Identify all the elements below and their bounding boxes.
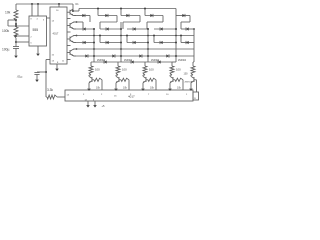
svg-text:3.3k: 3.3k <box>47 88 53 92</box>
wire grid row8 rail <box>74 55 194 57</box>
wire U2 out stub <box>67 31 71 33</box>
wire emitter Q1 <box>73 14 76 16</box>
transistor Qc4 <box>170 76 173 82</box>
node bus x194 r4 <box>193 28 195 30</box>
label pin16 <box>56 10 59 12</box>
pin 4 stub <box>37 4 39 16</box>
label Rb2 10k <box>123 87 128 90</box>
node bus r8 x121 <box>120 55 122 57</box>
node bus r5 x94 <box>93 35 95 37</box>
wire jog r5r6 <box>153 36 155 43</box>
label U3 out 9 <box>130 94 132 96</box>
node pin4 rail <box>37 3 39 5</box>
node loop bottom <box>15 25 17 27</box>
label C1 100u <box>2 48 10 52</box>
wire U2 out stub <box>67 18 71 20</box>
wire base Qc5 <box>194 80 197 92</box>
wire row6 brick <box>181 42 194 44</box>
label U1 555 <box>33 28 39 32</box>
label Rb1 10k <box>96 87 101 90</box>
node pin2 node <box>15 35 17 37</box>
ic U2 4017 box <box>50 7 67 64</box>
label pin14 <box>52 21 55 23</box>
label Rc2 <box>122 68 127 72</box>
node jog r1 <box>120 8 122 10</box>
node U2 Vdd rail <box>58 3 60 5</box>
transistor Q2 <box>70 22 73 28</box>
label Rb3 10k <box>150 87 155 90</box>
wire emitter Q4 <box>73 55 76 57</box>
led D row8 <box>139 54 142 57</box>
svg-text:2N3904: 2N3904 <box>151 60 160 62</box>
node bus r8 x94 <box>93 55 95 57</box>
wire bus x176 <box>175 9 177 63</box>
capacitor C2 <box>34 73 39 75</box>
svg-text:100: 100 <box>95 68 100 72</box>
resistor R3 3k3 <box>47 95 57 99</box>
label pin11 <box>62 61 65 63</box>
wire row3 brick <box>100 21 117 23</box>
wire base Qc1 <box>92 78 102 90</box>
node jog r5 <box>126 35 128 37</box>
transistor Q1 <box>70 9 73 15</box>
label U3 4017 <box>128 95 135 99</box>
wire Rc4 bottom <box>170 75 172 76</box>
node carry C2 <box>45 71 47 73</box>
wire base Qc2 <box>119 78 129 90</box>
wire base Q3 <box>67 38 70 40</box>
node pin8 rail <box>31 3 33 5</box>
wire row2 brick <box>98 15 117 17</box>
node jog r1 <box>144 8 146 10</box>
wire jog r3r4 <box>122 22 124 29</box>
label pin8b <box>57 62 59 64</box>
led D row4 <box>133 27 136 30</box>
ground Qc1 <box>87 83 91 91</box>
led D row6 <box>83 41 86 44</box>
label supply <box>102 104 106 108</box>
wire jog r3r4 <box>82 22 84 29</box>
label D1 <box>76 3 80 6</box>
wire grid row1 rail <box>79 8 176 10</box>
led D row6 <box>106 41 109 44</box>
wire base Qc3 <box>146 78 156 90</box>
label U3 out 1 <box>186 94 188 96</box>
wire base Q1 <box>67 11 70 13</box>
ground C2 <box>35 75 39 83</box>
resistor Rc1 100R <box>89 66 93 75</box>
pin16 stub <box>58 4 60 7</box>
wire pin2 stub <box>16 35 29 37</box>
wire U2 out stub <box>67 45 71 47</box>
label U3 out 7 <box>148 94 150 96</box>
transistor Qc1 <box>89 76 92 82</box>
wire jog r2r3 <box>89 16 91 23</box>
label Rc1 <box>95 68 100 72</box>
wire jog r2r3 <box>139 16 141 23</box>
wire Rc3 bottom <box>143 75 145 76</box>
led Dc2 <box>131 60 134 63</box>
ground Qc2 <box>114 83 118 91</box>
wire row6 brick <box>127 42 148 44</box>
wire bus x94 <box>93 29 95 62</box>
label Rc3 <box>149 68 154 72</box>
wire grid row7 rail <box>74 48 194 50</box>
label U3 pin14 <box>67 95 70 97</box>
led Dc3 <box>158 60 161 63</box>
node jog r5 <box>180 35 182 37</box>
node bus x176 <box>175 28 177 30</box>
node Q3 coll <box>76 35 78 37</box>
label U3 out 2 <box>101 94 103 96</box>
pin 8 stub <box>31 4 33 16</box>
wire row4 brick <box>181 28 194 30</box>
svg-text:555: 555 <box>33 28 39 32</box>
node bus r5 x121 <box>120 35 122 37</box>
node bus r7 x94 <box>93 48 95 50</box>
wire top +V rail <box>16 3 73 5</box>
label pin13 <box>52 61 55 63</box>
node bus r8 x148 <box>147 55 149 57</box>
wire jog r3r4 <box>146 22 148 29</box>
label pin6n <box>31 43 33 45</box>
node rail drop <box>72 10 74 12</box>
led D row4 <box>83 27 86 30</box>
wire C2 stub <box>37 71 46 73</box>
wire rail drop right <box>72 4 74 11</box>
wire carry to clock b <box>57 96 65 98</box>
node bus x176 <box>175 35 177 37</box>
svg-text:.01µ: .01µ <box>17 75 23 79</box>
wire Rc5 bottom <box>191 75 193 76</box>
wire row2 brick <box>74 15 90 17</box>
ground Qc4 <box>168 83 172 91</box>
wire col2 seg <box>118 61 145 63</box>
ground U2 <box>55 64 59 71</box>
node bus r6 x94 <box>93 42 95 44</box>
node bus x176 <box>175 55 177 57</box>
label Qc5 <box>185 82 193 84</box>
resistor Rc4 100R <box>170 66 174 75</box>
transistor Q4 <box>70 49 73 55</box>
wire row4 brick <box>154 28 176 30</box>
node jog r1 <box>97 8 99 10</box>
wire row3 brick <box>123 21 140 23</box>
pin 3 stub out <box>47 17 51 19</box>
led D row6 <box>133 41 136 44</box>
svg-text:100: 100 <box>176 68 181 72</box>
wire col1 to res <box>90 62 92 66</box>
wire jog r5r6 <box>126 36 128 43</box>
label Rc4 <box>176 68 181 72</box>
svg-text:2N3904: 2N3904 <box>178 60 187 62</box>
label pin3 <box>43 20 45 22</box>
node bus x176 <box>175 42 177 44</box>
node bus r4 x121 <box>120 28 122 30</box>
svg-text:4017: 4017 <box>53 32 59 36</box>
wire col3 to res <box>144 62 146 66</box>
label R2 100k <box>2 29 10 33</box>
resistor Rc3 100R <box>143 66 147 75</box>
node bus r6 x121 <box>120 42 122 44</box>
wire pin7 loop bottom <box>8 25 29 27</box>
label Qc1 <box>97 60 106 62</box>
svg-text:100: 100 <box>149 68 154 72</box>
node bus r4 x148 <box>147 28 149 30</box>
wire R2-C1 <box>15 38 17 47</box>
wire pin7 loop left <box>7 20 9 26</box>
transistor Qc3 <box>143 76 146 82</box>
led D row8 <box>112 54 115 57</box>
wire jog r3r4 <box>180 22 182 29</box>
wire bus x148 <box>147 29 149 62</box>
label U3 pin13 <box>85 99 88 101</box>
resistor R2 <box>14 27 18 38</box>
wire row3 brick <box>74 21 83 23</box>
wire Rc1 bottom <box>89 75 91 76</box>
label Rb4 10k <box>177 87 182 90</box>
svg-text:2N3904: 2N3904 <box>124 60 133 62</box>
led D row2 <box>182 14 185 17</box>
wire jog r2r3 <box>189 16 191 23</box>
wire bus x121 <box>120 22 122 62</box>
led D row4 <box>160 27 163 30</box>
label U2 4017 <box>53 32 59 36</box>
node jog r5 <box>153 35 155 37</box>
wire jog r5r6 <box>180 36 182 43</box>
led D row2 <box>150 14 153 17</box>
svg-text:100: 100 <box>184 73 189 76</box>
ground C1 <box>14 49 18 59</box>
wire jog r2r3 <box>162 16 164 23</box>
label U3 pin16 <box>114 96 117 98</box>
wire Q1 coll node <box>73 10 79 12</box>
wire col5 to res <box>192 62 194 66</box>
label pin4 <box>37 19 39 21</box>
label pin15 <box>52 55 55 57</box>
wire col5 feed <box>193 61 194 63</box>
node pin6 node <box>15 41 17 43</box>
node bus r4 x94 <box>93 28 95 30</box>
transistor Q3 <box>70 36 73 42</box>
wire row3 brick <box>181 21 190 23</box>
ground Qc3 <box>141 83 145 91</box>
wire bus x194 <box>193 29 195 62</box>
led D row8 <box>166 54 169 57</box>
wire col4 to res <box>171 62 173 66</box>
label Rc5 <box>184 73 189 76</box>
node Q2 coll <box>76 21 78 23</box>
label U3 pin15 <box>194 98 197 100</box>
led D row2 <box>105 14 108 17</box>
resistor R1 <box>14 10 18 21</box>
wire jog r3r4 <box>99 22 101 29</box>
wire pin7 loop top <box>8 19 16 21</box>
svg-text:2N3904: 2N3904 <box>97 60 106 62</box>
wire jog r5r6 <box>99 36 101 43</box>
label U3 out 10 <box>166 94 169 96</box>
wire carry to clock a <box>46 96 47 98</box>
wire carry down <box>45 60 47 98</box>
wire collector Q4 <box>73 48 76 50</box>
wire grid row5 rail <box>74 35 194 37</box>
svg-text:100µ: 100µ <box>2 48 10 52</box>
wire row2 brick <box>121 15 140 17</box>
ic U1 555 box <box>29 16 47 46</box>
node bus r7 x121 <box>120 48 122 50</box>
capacitor C1 <box>13 47 19 49</box>
svg-text:100: 100 <box>122 68 127 72</box>
label R3 3.3k <box>47 88 53 92</box>
wire jog r1r2 <box>144 9 146 16</box>
label Qc2 <box>124 60 133 62</box>
led D row8 <box>85 54 88 57</box>
label U3 pin8c <box>93 99 95 101</box>
wire collector Q3 <box>73 35 76 37</box>
wire Rc2 bottom <box>116 75 118 76</box>
label C2 <box>17 75 23 79</box>
node bus r6 x148 <box>147 42 149 44</box>
wire row2 brick <box>145 15 163 17</box>
label Qc3 <box>151 60 160 62</box>
wire row6 brick <box>100 42 121 44</box>
node Q4 coll <box>76 48 78 50</box>
wire carry left <box>46 59 50 61</box>
wire emitter Q3 <box>73 41 76 43</box>
transistor Qc2 <box>116 76 119 82</box>
led D row2 <box>126 14 129 17</box>
wire row6 brick <box>154 42 176 44</box>
wire U2 out stub <box>67 59 71 61</box>
node jog r5 <box>99 35 101 37</box>
led D row2 <box>82 14 85 17</box>
wire jog r1r2 <box>97 9 99 16</box>
wire base Q4 <box>67 52 70 54</box>
label Qc4 <box>178 60 187 62</box>
label pin2n <box>31 37 33 39</box>
wire emitter Q2 <box>73 28 76 30</box>
wire row1 step <box>78 9 80 12</box>
wire col4 seg <box>172 61 176 63</box>
ground pin1 <box>36 50 40 57</box>
ground Qc5 <box>189 83 193 91</box>
wire row6 brick <box>74 42 94 44</box>
wire col3 seg <box>145 61 172 63</box>
wire row4 brick <box>100 28 121 30</box>
resistor Rc2 100R <box>116 66 120 75</box>
node bus r5 x148 <box>147 35 149 37</box>
wire col2 to res <box>117 62 119 66</box>
node loop top <box>15 19 17 21</box>
led D row6 <box>160 41 163 44</box>
led D row4 <box>106 27 109 30</box>
wire jog r2r3 <box>116 16 118 23</box>
ground U3 a <box>86 101 90 108</box>
svg-text:100k: 100k <box>2 29 10 33</box>
wire base Qc4 <box>173 78 183 90</box>
resistor Rc5 100R <box>191 66 195 75</box>
pin 1 stub <box>37 46 39 50</box>
led D row6 <box>186 41 189 44</box>
label U3 out 3 <box>83 94 85 96</box>
svg-text:10k: 10k <box>5 11 11 15</box>
wire row4 brick <box>127 28 148 30</box>
ic U3 4017 box <box>65 90 193 101</box>
wire left drop <box>15 4 17 10</box>
terminal U3 reset <box>193 92 199 100</box>
wire collector Q2 <box>73 21 76 23</box>
wire row4 brick <box>74 28 94 30</box>
wire R1-R2 <box>15 21 17 27</box>
led Dc1 <box>104 60 107 63</box>
wire col1 seg <box>91 61 118 63</box>
wire jog r1r2 <box>120 9 122 16</box>
wire pin6 stub <box>16 41 29 43</box>
ground U3 b <box>93 101 97 108</box>
node R1R2 junction <box>15 23 17 25</box>
wire row2 brick <box>176 15 190 17</box>
label R1 10k <box>5 11 11 15</box>
wire row3 brick <box>147 21 163 23</box>
node bus r7 x148 <box>147 48 149 50</box>
wire base Q2 <box>67 25 70 27</box>
label pin8 <box>31 19 33 21</box>
led D row4 <box>186 27 189 30</box>
transistor Qc5 <box>191 76 194 82</box>
